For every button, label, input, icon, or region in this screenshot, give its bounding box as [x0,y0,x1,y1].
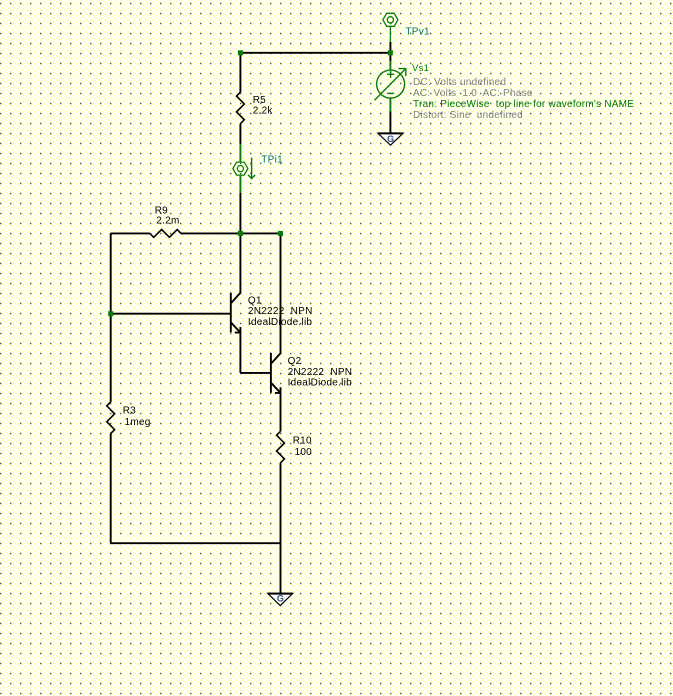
svg-text:Distort: Sine undefined: Distort: Sine undefined [413,110,523,121]
wire Q2 emitter [280,393,282,431]
svg-text:1meg: 1meg [125,417,151,428]
transistor Q1 [231,293,241,333]
ground Vs1 [378,133,403,145]
wire left rail lower [110,434,112,544]
svg-text:G: G [277,594,284,604]
svg-text:100: 100 [295,447,313,458]
svg-text:R3: R3 [123,406,136,417]
label Q1 [248,295,313,327]
wire TPv1 stem [389,42,391,53]
node junction top-left [238,50,243,55]
svg-text:TPi1: TPi1 [261,155,283,166]
wire bottom horizontal [111,542,281,544]
svg-text:2N2222 NPN: 2N2222 NPN [288,367,353,378]
svg-text:Tran: PieceWise top line for: Tran: PieceWise top line for waveform's … [413,99,634,110]
svg-text:IdealDiode.lib: IdealDiode.lib [288,377,353,388]
voltage source Vs1 [375,53,406,133]
wire Q1 emitter to Q2 base [240,333,271,373]
ground bottom [268,593,293,605]
svg-text:R10: R10 [293,436,312,447]
svg-text:2.2k: 2.2k [253,106,274,117]
node junction mid-right [278,231,283,236]
wire R5 top stem [239,53,241,92]
transistor Q2 [271,353,281,393]
svg-text:R5: R5 [253,95,266,106]
wire Q2 collector [280,233,282,353]
wire R5 to TPi1 [239,124,241,162]
svg-text:DC: Volts undefined: DC: Volts undefined [413,77,506,88]
label Q2 [288,356,353,388]
wire TPi1 to junction [239,175,241,233]
node junction top-right [388,50,393,55]
wire top horizontal [240,52,390,54]
wire R10 to ground [280,463,282,594]
svg-text:TPv1: TPv1 [405,27,430,38]
svg-text:2.2m: 2.2m [156,216,179,227]
svg-text:Vs1: Vs1 [412,63,429,74]
resistor R3 [107,402,151,434]
node junction base [108,311,113,316]
wire R9 left lead [111,232,150,234]
resistor R5 [237,92,274,124]
svg-text:Q1: Q1 [248,295,262,306]
svg-text:AC: Volts 1.0 AC: Phase: AC: Volts 1.0 AC: Phase [413,88,533,99]
resistor R10 [277,431,313,463]
test point TPv1 [383,13,398,42]
wire Q1 base [111,313,231,315]
svg-text:G: G [387,134,394,144]
TPi1 current arrow [248,158,255,179]
wire R9 right lead [181,232,281,234]
test point TPi1 [233,162,248,175]
node junction mid-left [238,231,243,236]
wire left rail upper [110,233,112,402]
svg-text:Q2: Q2 [288,356,302,367]
wire Q1 collector [239,233,241,293]
resistor R9 [150,205,181,237]
